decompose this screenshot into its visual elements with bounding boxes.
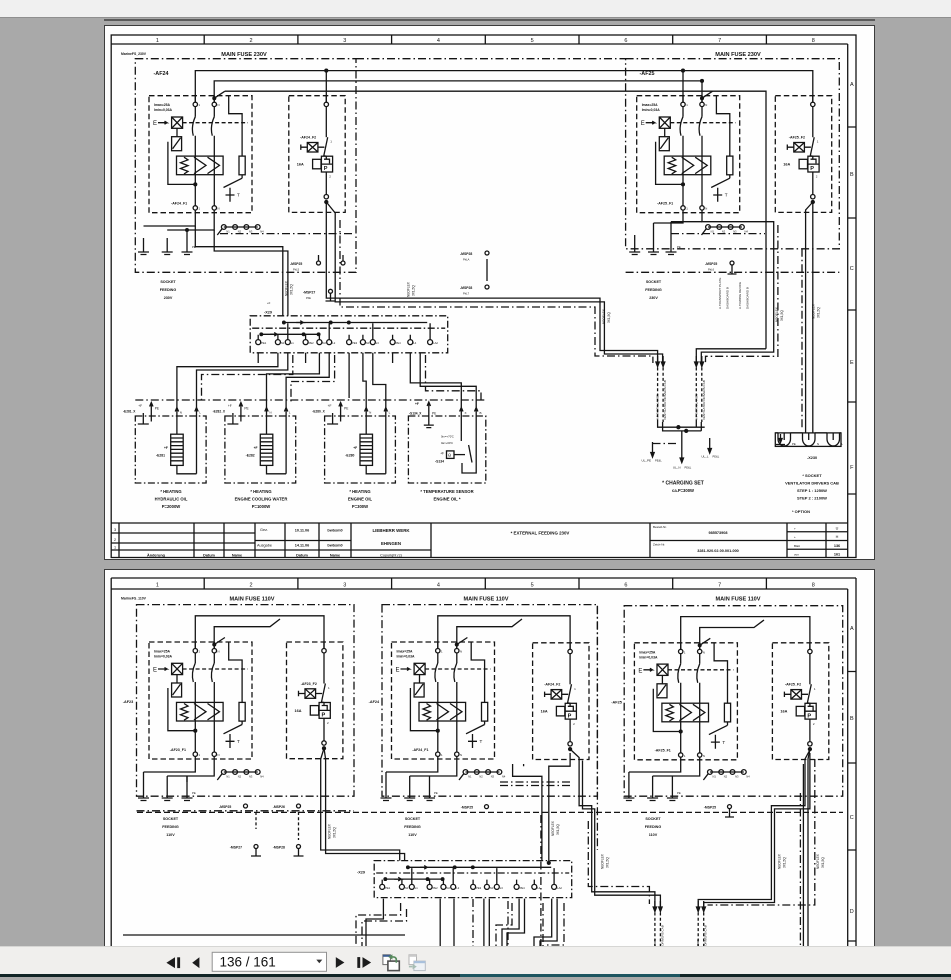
svg-text:P=2000W: P=2000W (162, 504, 181, 509)
dash-dot separators (541, 606, 801, 946)
cable outline dash-dot runs (202, 355, 482, 403)
ventilator cab feed arrows right (694, 356, 706, 422)
svg-text:C: C (850, 815, 854, 821)
svg-text:MAIN FUSE 110V: MAIN FUSE 110V (463, 597, 508, 603)
socket terminal N1 cluster1 (162, 784, 173, 801)
svg-text:ENGINE OIL *: ENGINE OIL * (434, 497, 461, 502)
svg-text:5: 5 (531, 583, 534, 589)
svg-text:A: A (850, 82, 854, 88)
cable label NEOFLEX 3 (602, 308, 611, 324)
svg-text:SOCKET: SOCKET (405, 817, 421, 821)
svg-text:110V: 110V (166, 833, 175, 837)
drawing frame (111, 35, 856, 558)
run dash-dot outlines (340, 220, 778, 365)
svg-text:PE: PE (434, 791, 438, 795)
wire run X29 to heater E280 (363, 353, 386, 408)
svg-text:230V: 230V (649, 296, 658, 300)
svg-text:7: 7 (718, 583, 721, 589)
socket stubs cluster3 (629, 757, 700, 784)
socket terminal L1 cluster2 (381, 784, 392, 801)
svg-text:UL_N: UL_N (673, 466, 681, 470)
svg-text:-AF25_F2: -AF25_F2 (785, 683, 801, 687)
svg-text:H: H (836, 535, 839, 539)
svg-text:DASHBOARD B: DASHBOARD B (746, 287, 750, 309)
svg-text:PhE: PhE (306, 296, 311, 300)
terminal row AF24 aux contacts (217, 225, 264, 235)
svg-text:FEEDING: FEEDING (404, 825, 421, 829)
svg-text:0m=+70'C: 0m=+70'C (441, 435, 454, 439)
svg-text:8: 8 (812, 38, 815, 44)
AF24_F2 drop pair to run1 (326, 202, 657, 362)
wire feed A (195, 71, 813, 103)
svg-text:3281-920.02.00.001-000: 3281-920.02.00.001-000 (697, 549, 739, 553)
svg-text:2: 2 (249, 38, 252, 44)
wire feed C (225, 91, 766, 349)
svg-text:PE&L: PE&L (685, 466, 692, 470)
svg-text:MarineFS_110V: MarineFS_110V (121, 597, 147, 601)
socket X230 (775, 433, 841, 447)
svg-text:θ: θ (448, 453, 451, 458)
svg-text:136 / 161: 136 / 161 (220, 955, 276, 970)
ventilator cab feed arrows right page2 (696, 901, 708, 967)
svg-text:-AF24_F1: -AF24_F1 (412, 748, 428, 752)
svg-text:-E281: -E281 (156, 454, 165, 458)
svg-text:PhL5: PhL5 (293, 268, 300, 272)
svg-text:LIEBHERR WERK: LIEBHERR WERK (372, 528, 410, 533)
svg-text:SOCKET: SOCKET (160, 280, 176, 284)
dashed top connector (356, 58, 626, 60)
fuse drop pair 1 (321, 748, 400, 860)
socket terminal PE cluster2 (424, 784, 435, 801)
svg-text:-E282: -E282 (246, 454, 255, 458)
svg-text:-AF23: -AF23 (123, 700, 134, 704)
svg-text:-MSP27: -MSP27 (303, 291, 315, 295)
svg-text:-E282_X: -E282_X (213, 410, 226, 414)
svg-text:bwbsm0: bwbsm0 (327, 529, 342, 533)
svg-text:+F: +F (415, 402, 419, 406)
svg-text:FEEDING: FEEDING (162, 825, 179, 829)
svg-text:* EXTERNAL FEEDING 230V: * EXTERNAL FEEDING 230V (511, 531, 570, 536)
terminal row AF25 aux contacts (703, 770, 750, 780)
svg-text:3: 3 (343, 583, 346, 589)
svg-text:STEP 2 : 2100W: STEP 2 : 2100W (797, 496, 827, 501)
svg-text:Copyright (c): Copyright (c) (380, 554, 402, 558)
svg-text:A.TOWING DEVICE: A.TOWING DEVICE (738, 282, 742, 309)
heater -E280 (325, 403, 396, 484)
svg-text:-AF23_F2: -AF23_F2 (301, 682, 317, 686)
wire run X29 to heater E282 (267, 353, 330, 408)
svg-text:-AF25_F1: -AF25_F1 (657, 202, 673, 206)
svg-text:SOCKET: SOCKET (645, 817, 661, 821)
svg-text:C: C (850, 266, 854, 272)
svg-text:SOCKET: SOCKET (163, 817, 179, 821)
svg-text:Datum: Datum (296, 554, 308, 558)
svg-text:5: 5 (531, 38, 534, 44)
cable label NEOFLEX 5 (812, 303, 821, 319)
svg-text:HYDRAULIC OIL: HYDRAULIC OIL (155, 497, 188, 502)
socket terminal N1 cluster3 (647, 784, 658, 801)
svg-text:PhL7: PhL7 (463, 292, 470, 296)
svg-text:* HEATING: * HEATING (250, 489, 271, 494)
fuse -AF25_F2 (775, 96, 831, 213)
fuse drop pair 3 (698, 750, 810, 907)
AF25_F2 pair to X230 (806, 202, 813, 433)
svg-text:MAIN FUSE 230V: MAIN FUSE 230V (221, 52, 267, 58)
svg-text:B: B (480, 411, 482, 415)
svg-text:-AF25_F2: -AF25_F2 (789, 136, 805, 140)
svg-text:110V: 110V (649, 833, 658, 837)
svg-text:1: 1 (156, 38, 159, 44)
svg-text:D: D (850, 909, 854, 915)
svg-text:1: 1 (114, 546, 116, 550)
svg-text:U: U (836, 527, 839, 531)
svg-text:PE: PE (192, 791, 196, 795)
svg-text:* HEATING: * HEATING (349, 489, 370, 494)
wire AF24 output drops (144, 210, 215, 238)
svg-text:UL_PE: UL_PE (641, 459, 651, 463)
svg-text:-MSP25: -MSP25 (704, 806, 716, 810)
svg-text:Name: Name (330, 554, 340, 558)
cable label NEOFLEX 1b page2 (551, 820, 560, 836)
svg-text:6: 6 (624, 38, 627, 44)
svg-text:-MSP27: -MSP27 (230, 846, 242, 850)
svg-text:-MSP28: -MSP28 (460, 252, 472, 256)
svg-text:-AF24_F2: -AF24_F2 (300, 136, 316, 140)
svg-text:+: + (794, 527, 796, 531)
breaker -AF23 (149, 638, 252, 760)
svg-text:-MSP25: -MSP25 (290, 262, 302, 266)
inner dash-dot dividers (220, 233, 765, 235)
socket terminal L (138, 238, 149, 255)
svg-text:A: A (850, 626, 854, 632)
svg-text:B: B (850, 172, 854, 178)
column ticks (204, 35, 766, 44)
cable label NEOFLEX 2 page2 (601, 853, 610, 869)
wire run X29 to heater E281 (177, 353, 288, 408)
svg-text:-AF24_F1: -AF24_F1 (171, 202, 187, 206)
svg-text:* HEATING: * HEATING (160, 489, 181, 494)
svg-text:X: X (465, 411, 467, 415)
cable label NEOFLEX 1 (285, 280, 294, 296)
svg-text:SOCKET: SOCKET (646, 280, 662, 284)
svg-text:E: E (850, 360, 854, 366)
socket feeding labels page2 (162, 817, 661, 837)
svg-text:-AF25: -AF25 (640, 71, 655, 77)
svg-text:0a=+60'C: 0a=+60'C (441, 441, 453, 445)
breaker -AF25 (637, 91, 740, 213)
breaker -AF24 (149, 91, 252, 213)
feed wires cluster1 (195, 616, 324, 649)
svg-text:1: 1 (156, 583, 159, 589)
svg-text:PE&L: PE&L (713, 455, 720, 459)
svg-text:-AF24: -AF24 (369, 700, 380, 704)
svg-text:-MSP25: -MSP25 (461, 806, 473, 810)
svg-text:-E280_X: -E280_X (312, 410, 325, 414)
X29 feed pair (195, 226, 288, 316)
svg-text:2: 2 (114, 538, 116, 542)
svg-text:+: + (794, 535, 796, 539)
svg-text:STEP 1 : 1250W: STEP 1 : 1250W (797, 488, 827, 493)
svg-text:-AF25_F1: -AF25_F1 (655, 749, 671, 753)
terminal row AF23 aux contacts (217, 770, 264, 780)
svg-text:* CHARGING SET: * CHARGING SET (662, 481, 704, 487)
svg-text:FEEDING: FEEDING (645, 288, 662, 292)
svg-text:-X29: -X29 (357, 871, 365, 875)
wires below X29 (123, 899, 564, 946)
cable label NEOFLEX 1 page2 (328, 823, 337, 839)
svg-text:-AF23_F1: -AF23_F1 (170, 748, 186, 752)
svg-text:985573908: 985573908 (708, 531, 727, 535)
svg-text:8: 8 (812, 583, 815, 589)
svg-text:P=300W: P=300W (352, 504, 368, 509)
run2 from AF25 (696, 349, 766, 362)
heater -E281 (135, 403, 206, 484)
socket terminal N1 cluster2 (404, 784, 415, 801)
svg-text:ca.P=300W: ca.P=300W (672, 488, 694, 493)
socket terminal N (162, 238, 173, 255)
drawing frame page2 (111, 578, 856, 946)
svg-text:-E280: -E280 (345, 454, 354, 458)
svg-text:-X29: -X29 (264, 311, 272, 315)
socket terminal L1 cluster1 (138, 784, 149, 801)
svg-text:DASHBOARD B: DASHBOARD B (726, 287, 730, 309)
svg-text:ENGINE OIL: ENGINE OIL (348, 497, 373, 502)
svg-text:Ausgabe: Ausgabe (257, 544, 272, 548)
svg-text:bwbsm0: bwbsm0 (327, 544, 342, 548)
svg-text:PE: PE (792, 442, 796, 446)
svg-text:VENTILATOR DRIVERS CAB: VENTILATOR DRIVERS CAB (785, 481, 839, 486)
enclosure AF25 dash-dot box (626, 59, 840, 249)
breaker -AF24 (392, 638, 495, 760)
svg-text:Blatt: Blatt (794, 544, 800, 548)
socket terminal PE cluster3 (667, 784, 678, 801)
svg-text:+F: +F (164, 446, 168, 450)
svg-text:6: 6 (624, 583, 627, 589)
svg-text:Änderung: Änderung (147, 554, 166, 558)
charging set junction (651, 422, 712, 463)
svg-text:* SOCKET: * SOCKET (802, 473, 822, 478)
row ticks right (848, 127, 856, 494)
svg-text:von: von (794, 553, 799, 557)
svg-text:UL_L: UL_L (701, 455, 709, 459)
svg-text:PE&L: PE&L (655, 459, 662, 463)
svg-text:N: N (817, 442, 819, 446)
AF25 socket stubs (635, 210, 702, 238)
svg-text:110V: 110V (408, 833, 417, 837)
svg-text:PE: PE (677, 791, 681, 795)
svg-text:B: B (850, 716, 854, 722)
svg-text:4: 4 (437, 583, 440, 589)
svg-text:2: 2 (249, 583, 252, 589)
enclosure boxes page2 (137, 605, 355, 797)
cable label NEOFLEX 2 (407, 281, 416, 297)
svg-text:230V: 230V (164, 296, 173, 300)
svg-text:4: 4 (437, 38, 440, 44)
fuse drop pair 2 (570, 749, 655, 907)
svg-text:* TEMPERATURE SENSOR: * TEMPERATURE SENSOR (420, 489, 473, 494)
svg-text:L: L (842, 442, 844, 446)
fuse -AF24_F2 (533, 643, 589, 760)
svg-text:MarineFS_230V: MarineFS_230V (121, 52, 147, 56)
svg-text:-AF24_F2: -AF24_F2 (544, 683, 560, 687)
feed wires cluster3 (681, 617, 810, 650)
svg-text:-S134_X: -S134_X (409, 412, 422, 416)
heater -E282 (225, 403, 296, 484)
svg-text:ENGINE COOLING WATER: ENGINE COOLING WATER (235, 497, 288, 502)
svg-text:-MSP25: -MSP25 (219, 805, 231, 809)
svg-text:A.TRANSPORT PLATE: A.TRANSPORT PLATE (718, 278, 722, 309)
cable label NEOFLEX 3 page2 (777, 853, 786, 869)
cable corridor lines (500, 782, 571, 786)
feed wires cluster2 (438, 616, 570, 649)
temperature sensor -S134 box (408, 402, 485, 483)
ventilator cab feed arrows left page2 (653, 901, 665, 967)
svg-text:+F: +F (267, 301, 271, 305)
svg-text:10.11.06: 10.11.06 (295, 529, 310, 533)
svg-text:7: 7 (718, 38, 721, 44)
svg-text:-MSP28: -MSP28 (460, 286, 472, 290)
svg-text:MAIN FUSE 230V: MAIN FUSE 230V (715, 52, 761, 58)
socket stubs cluster2 (386, 756, 457, 784)
svg-text:MAIN FUSE 110V: MAIN FUSE 110V (229, 597, 274, 603)
cable label NEOFLEX 4 (775, 306, 784, 322)
terminal strip -X29 (250, 316, 448, 353)
wire run X29 to sensor S134 (410, 353, 476, 408)
svg-text:-MSP25: -MSP25 (705, 262, 717, 266)
terminal strip -X29 page2 (374, 861, 572, 898)
socket terminal PE (182, 238, 193, 255)
svg-text:Bestell-Nr.: Bestell-Nr. (653, 525, 667, 529)
wire PE stubs below X29 (258, 353, 392, 398)
heater area corridor line (135, 399, 486, 401)
svg-text:Name: Name (232, 554, 242, 558)
svg-text:PhLA: PhLA (463, 258, 470, 262)
svg-text:P=1000W: P=1000W (252, 504, 271, 509)
svg-text:-MSP28: -MSP28 (273, 846, 285, 850)
terminal row AF25 aux contacts (702, 225, 749, 235)
svg-text:Datum: Datum (203, 554, 215, 558)
svg-text:FEEDING: FEEDING (645, 825, 662, 829)
fuse -AF25_F2 (772, 643, 828, 760)
cable label NEOFLEX 4 page2 (816, 853, 825, 869)
svg-text:3: 3 (343, 38, 346, 44)
enclosure AF24 dash-dot box (135, 59, 356, 273)
svg-text:-AF25: -AF25 (611, 700, 622, 704)
svg-text:* OPTION: * OPTION (792, 509, 810, 514)
svg-text:PhL6: PhL6 (708, 268, 715, 272)
terminal row AF24 aux contacts (459, 770, 506, 780)
svg-text:14.11.06: 14.11.06 (295, 544, 310, 548)
svg-text:+F: +F (440, 452, 444, 456)
svg-text:+F: +F (353, 446, 357, 450)
svg-text:-X230: -X230 (807, 456, 817, 460)
svg-text:EHINGEN: EHINGEN (381, 541, 401, 546)
socket terminal PE cluster1 (182, 784, 193, 801)
svg-text:136: 136 (834, 544, 840, 548)
fuse -AF24_F2 (289, 96, 345, 213)
svg-text:3: 3 (114, 528, 116, 532)
svg-text:FEEDING: FEEDING (160, 288, 177, 292)
svg-text:PE: PE (677, 245, 681, 249)
heater captions (155, 489, 474, 509)
fuse -AF23_F2 (287, 642, 343, 759)
svg-text:MAIN FUSE 110V: MAIN FUSE 110V (715, 597, 760, 603)
wire feed B (214, 81, 702, 102)
svg-text:+F: +F (254, 446, 258, 450)
breaker -AF25 (634, 638, 737, 760)
svg-text:161: 161 (834, 553, 840, 557)
socket terminal L1 cluster3 (623, 784, 634, 801)
svg-text:PE: PE (432, 412, 436, 416)
svg-text:-E281_X: -E281_X (123, 410, 136, 414)
ventilator cab feed arrows left (656, 356, 668, 422)
title block (111, 523, 848, 558)
svg-text:-S134: -S134 (435, 460, 444, 464)
svg-text:Gez.: Gez. (260, 528, 268, 532)
svg-text:F: F (850, 465, 854, 471)
svg-text:-AF24: -AF24 (154, 71, 169, 77)
svg-text:-MSP26: -MSP26 (273, 805, 285, 809)
socket feeding labels (160, 280, 662, 300)
socket stubs cluster1 (144, 756, 215, 782)
svg-text:Zeich-Nr.: Zeich-Nr. (653, 543, 665, 547)
